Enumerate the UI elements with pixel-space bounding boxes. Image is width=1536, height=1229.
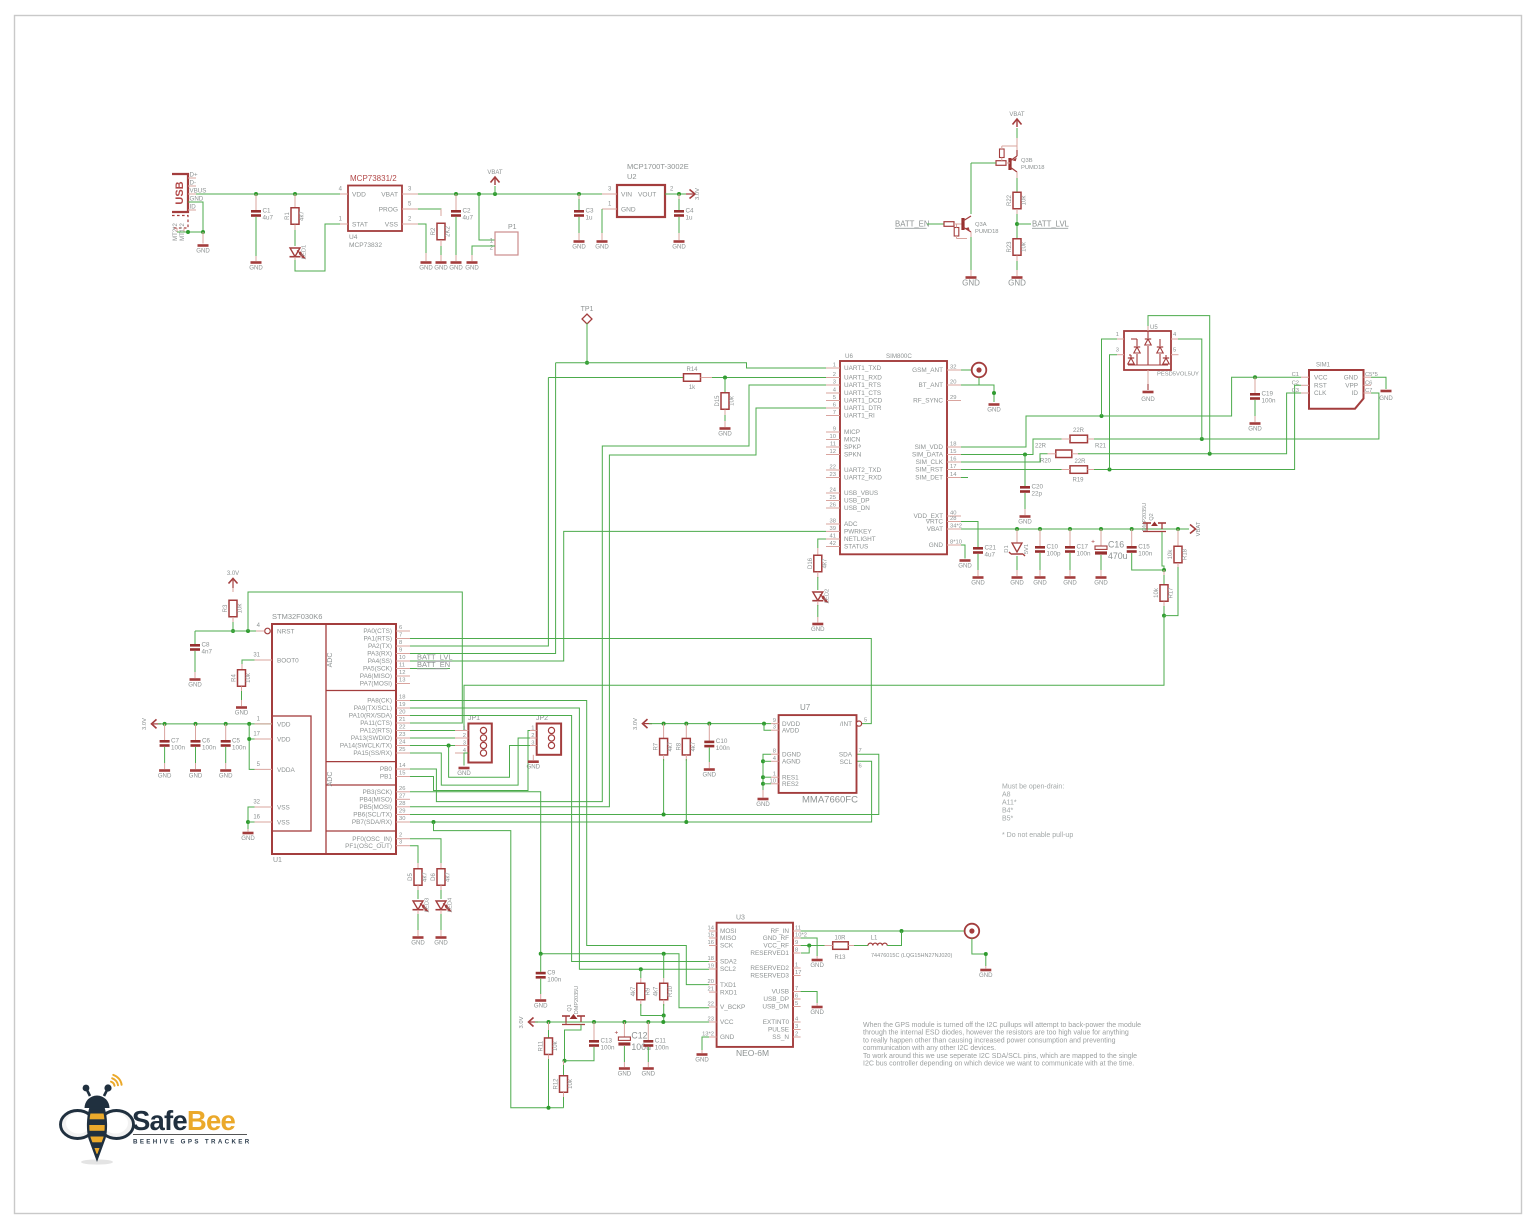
wire SIM_RST net	[961, 469, 1062, 471]
svg-text:ID: ID	[1352, 390, 1359, 397]
svg-text:GND: GND	[703, 771, 717, 778]
U5 internal diodes	[1147, 331, 1149, 338]
svg-text:A11*: A11*	[1002, 800, 1017, 807]
U1 right side port pins	[396, 630, 410, 632]
svg-text:R10: R10	[668, 985, 674, 997]
svg-text:PB3(SCK): PB3(SCK)	[363, 789, 392, 796]
svg-text:GND: GND	[434, 939, 448, 946]
svg-text:5: 5	[795, 1001, 798, 1007]
svg-text:11: 11	[795, 926, 801, 932]
svg-text:Must be open-drain:: Must be open-drain:	[1002, 784, 1064, 791]
wire RF_IN to antenna	[801, 930, 965, 932]
svg-text:38: 38	[830, 519, 836, 525]
U5 pin2 to GND	[1147, 370, 1149, 384]
svg-text:GND: GND	[1008, 279, 1026, 288]
wire U3 GND pin	[702, 1037, 709, 1050]
svg-text:C19: C19	[1262, 391, 1274, 398]
svg-text:R12: R12	[554, 1078, 560, 1090]
svg-text:MCP1700T-3002E: MCP1700T-3002E	[627, 162, 689, 171]
ground GND (U2)	[597, 240, 608, 243]
svg-text:2: 2	[463, 733, 466, 739]
wire VSS to GND	[418, 224, 426, 253]
capacitor C20	[1024, 455, 1026, 487]
svg-text:through the internal ESD diode: through the internal ESD diodes, however…	[863, 1030, 1129, 1037]
U5 pin5 stub	[1171, 354, 1179, 356]
svg-text:C11: C11	[655, 1038, 667, 1045]
svg-text:28: 28	[950, 516, 956, 522]
wire LED1 to STAT	[295, 224, 340, 271]
svg-text:U1: U1	[273, 857, 282, 864]
ground GND (C1)	[251, 261, 262, 264]
wire Q2 gate	[1162, 532, 1164, 570]
svg-text:VDD: VDD	[277, 722, 291, 729]
svg-text:25: 25	[830, 495, 836, 501]
wire VUSB to GND	[801, 992, 818, 1004]
svg-text:GND: GND	[962, 279, 980, 288]
resistor R8	[684, 722, 688, 726]
svg-text:R1: R1	[285, 212, 291, 220]
svg-text:5V1: 5V1	[1024, 544, 1030, 554]
resistor R17	[1163, 570, 1165, 577]
svg-text:+: +	[615, 1030, 619, 1037]
svg-text:PA8(CK): PA8(CK)	[367, 698, 392, 705]
svg-text:C5: C5	[232, 738, 241, 745]
svg-text:22: 22	[830, 465, 836, 471]
svg-text:VUSB: VUSB	[772, 989, 789, 996]
resistor R22	[1016, 178, 1018, 193]
svg-text:VCC: VCC	[1314, 374, 1328, 381]
svg-text:C2: C2	[1292, 380, 1299, 386]
base resistor (Q3B)	[996, 161, 1006, 166]
ground GND (USB)	[198, 244, 209, 247]
svg-text:PF0(OSC_IN): PF0(OSC_IN)	[352, 836, 392, 843]
capacitor C21	[973, 547, 983, 550]
svg-text:3.0V: 3.0V	[519, 1016, 525, 1028]
svg-text:SCK: SCK	[720, 943, 734, 950]
svg-text:10k: 10k	[1168, 549, 1174, 560]
svg-text:USB_DM: USB_DM	[762, 1004, 789, 1011]
svg-text:10k: 10k	[1154, 587, 1160, 598]
svg-text:C12: C12	[631, 1031, 647, 1041]
svg-text:SIM800C: SIM800C	[886, 353, 912, 360]
svg-text:RESERVED2: RESERVED2	[750, 965, 789, 972]
power 3.0V output arrow	[690, 190, 696, 199]
svg-text:GND: GND	[465, 264, 479, 271]
svg-text:VSS: VSS	[385, 222, 399, 229]
ground GND (LED2)	[812, 623, 823, 626]
svg-text:SIM1: SIM1	[1316, 363, 1331, 369]
svg-text:SDA: SDA	[839, 752, 853, 759]
svg-text:BATT_EN: BATT_EN	[895, 220, 930, 229]
svg-text:JP2: JP2	[536, 715, 548, 722]
wire C9 line to V_BCKP	[541, 954, 709, 1008]
svg-text:22R: 22R	[1073, 428, 1085, 434]
svg-text:VDD: VDD	[352, 192, 366, 199]
wire VDD rail	[158, 723, 272, 725]
capacitor C17	[1068, 527, 1072, 531]
svg-text:PB4(MISO): PB4(MISO)	[359, 797, 392, 804]
svg-text:STAT: STAT	[352, 222, 368, 229]
svg-text:21: 21	[708, 987, 714, 993]
svg-text:100n: 100n	[232, 745, 247, 752]
svg-text:C7: C7	[171, 738, 180, 745]
wire VRTC to C21	[961, 522, 978, 548]
logo SafeBee	[61, 1075, 252, 1165]
svg-text:VSS: VSS	[277, 820, 290, 827]
svg-text:R11: R11	[539, 1040, 545, 1051]
svg-text:10k: 10k	[246, 672, 252, 683]
resistor D15	[724, 378, 726, 395]
svg-text:VSS: VSS	[277, 805, 290, 812]
resistor R7	[662, 722, 666, 726]
svg-text:C10: C10	[1047, 544, 1059, 551]
svg-text:R13: R13	[834, 955, 846, 961]
svg-text:R8: R8	[676, 742, 682, 750]
svg-text:GND: GND	[1379, 395, 1393, 402]
svg-text:R19: R19	[1072, 478, 1084, 484]
svg-text:GND: GND	[720, 1034, 735, 1041]
svg-text:4u7: 4u7	[263, 215, 274, 222]
svg-text:SIM_DET: SIM_DET	[915, 475, 943, 482]
ground GND (C11)	[643, 1067, 654, 1070]
svg-text:39: 39	[830, 526, 836, 532]
svg-text:41: 41	[830, 534, 836, 540]
wire U7 grounds	[763, 754, 771, 790]
svg-text:10k: 10k	[553, 1040, 559, 1051]
resistor R18	[1176, 527, 1180, 531]
svg-text:VBAT: VBAT	[381, 192, 398, 199]
wire VBAT rail (charger out)	[418, 193, 608, 195]
power VBAT arrow (battery divider)	[1013, 119, 1022, 125]
svg-text:17: 17	[253, 732, 260, 738]
svg-text:MICN: MICN	[844, 437, 861, 444]
svg-text:9: 9	[795, 940, 798, 946]
wire R9 R10 bottoms to VCC	[641, 1004, 664, 1016]
svg-text:UART1_DTR: UART1_DTR	[844, 405, 882, 412]
svg-text:GND: GND	[958, 562, 972, 569]
svg-text:10k: 10k	[730, 395, 736, 406]
svg-text:100n: 100n	[601, 1045, 616, 1052]
svg-text:22R: 22R	[1074, 459, 1086, 465]
svg-text:MCP73831/2: MCP73831/2	[350, 174, 397, 183]
svg-text:7: 7	[399, 633, 402, 639]
svg-text:SPKN: SPKN	[844, 452, 862, 459]
svg-text:8: 8	[795, 948, 798, 954]
svg-text:BATT_LVL: BATT_LVL	[1032, 220, 1070, 229]
svg-text:D15: D15	[715, 395, 721, 407]
wire U2 GND pin to ground	[601, 209, 603, 233]
svg-text:GND: GND	[1248, 425, 1262, 432]
svg-text:28: 28	[399, 801, 405, 807]
svg-text:1: 1	[795, 963, 798, 969]
svg-text:PA2(TX): PA2(TX)	[368, 643, 392, 650]
antenna GSM_ANT	[961, 369, 971, 371]
svg-text:SIM_VDD: SIM_VDD	[915, 444, 944, 451]
wire SIM GND pin	[1371, 377, 1386, 389]
svg-text:GND: GND	[1033, 579, 1047, 586]
LED LED4	[440, 890, 442, 899]
svg-text:RESERVED3: RESERVED3	[750, 973, 789, 980]
ground GND (U7)	[758, 798, 769, 801]
svg-text:R23: R23	[1007, 241, 1013, 253]
wire C13 bottom to gate node	[565, 1047, 595, 1061]
svg-text:R22: R22	[1007, 194, 1013, 206]
svg-text:12: 12	[830, 449, 836, 455]
svg-text:C3: C3	[1292, 388, 1299, 394]
svg-text:TP1: TP1	[581, 306, 594, 313]
svg-text:Q1: Q1	[567, 1004, 573, 1011]
transistor Q3A PUMD18	[961, 218, 964, 230]
svg-text:3: 3	[833, 380, 836, 386]
svg-text:21: 21	[399, 717, 405, 723]
svg-text:SafeBee: SafeBee	[132, 1105, 235, 1136]
svg-text:5: 5	[1173, 348, 1176, 354]
ground GND (C8)	[190, 678, 201, 681]
svg-text:5: 5	[833, 395, 836, 401]
svg-text:4n7: 4n7	[202, 649, 213, 656]
svg-text:PA15(SS/RX): PA15(SS/RX)	[353, 750, 392, 757]
svg-text:3.0V: 3.0V	[227, 571, 239, 577]
resistor R4	[242, 660, 255, 664]
svg-text:ADC: ADC	[327, 772, 334, 787]
svg-text:VDD: VDD	[277, 737, 291, 744]
resistor R11	[547, 1020, 551, 1024]
svg-text:10k: 10k	[1022, 241, 1028, 252]
svg-text:GND: GND	[811, 626, 825, 633]
svg-text:7: 7	[859, 748, 862, 754]
svg-text:C17: C17	[1077, 544, 1089, 551]
svg-text:LED3: LED3	[425, 898, 431, 913]
svg-text:42: 42	[830, 541, 836, 547]
LED LED3	[417, 890, 419, 899]
ground GND (C12)	[619, 1067, 630, 1070]
svg-text:PA0(CTS): PA0(CTS)	[363, 628, 392, 635]
capacitor C10	[707, 722, 711, 726]
svg-text:9: 9	[833, 427, 836, 433]
svg-text:STATUS: STATUS	[844, 544, 868, 551]
ground GND (Q3A)	[966, 276, 977, 279]
svg-text:PA6(MISO): PA6(MISO)	[360, 673, 392, 680]
wire SIM_DET stub	[961, 477, 968, 479]
svg-text:1u: 1u	[586, 215, 594, 222]
svg-text:U2: U2	[627, 172, 637, 181]
svg-text:Q3B: Q3B	[1021, 158, 1033, 164]
ground GND (U1 VSS)	[243, 832, 254, 835]
svg-text:2: 2	[399, 833, 402, 839]
svg-text:3.0V: 3.0V	[142, 718, 148, 730]
svg-text:VBAT: VBAT	[1196, 521, 1202, 536]
svg-text:BATT_EN: BATT_EN	[417, 660, 450, 669]
svg-text:GND: GND	[190, 196, 204, 203]
svg-text:10: 10	[830, 434, 836, 440]
svg-text:U3: U3	[736, 915, 745, 922]
U5 top pin wire	[1147, 325, 1149, 331]
svg-text:3.0V: 3.0V	[695, 188, 701, 200]
svg-text:5: 5	[864, 718, 867, 724]
capacitor C4	[678, 194, 680, 201]
svg-text:R2: R2	[431, 227, 437, 235]
ground GND (JP1)	[459, 767, 470, 770]
svg-text:PA7(MOSI): PA7(MOSI)	[360, 681, 392, 688]
svg-text:UART2_RXD: UART2_RXD	[844, 475, 882, 482]
wire R7 to PB6	[663, 759, 665, 815]
ground GND (VUSB)	[812, 1006, 823, 1009]
wire R18 bottom to R17 node	[1164, 567, 1178, 616]
wire JP1 pin4 to GND	[464, 753, 468, 766]
wire NRST net	[231, 629, 235, 633]
svg-text:8: 8	[773, 749, 776, 755]
connector USB	[172, 174, 188, 212]
svg-text:25: 25	[399, 747, 405, 753]
svg-text:32: 32	[253, 800, 260, 806]
svg-text:SIM_DATA: SIM_DATA	[912, 452, 944, 459]
svg-text:4k7: 4k7	[423, 872, 429, 882]
svg-text:GND: GND	[457, 770, 471, 777]
svg-text:TXD1: TXD1	[720, 982, 737, 989]
svg-text:to really happen other than ca: to really happen other than causing incr…	[863, 1037, 1116, 1044]
svg-text:15: 15	[399, 771, 405, 777]
svg-text:D5: D5	[408, 873, 414, 881]
svg-text:MISO: MISO	[720, 935, 736, 942]
ground GND (D15)	[720, 427, 731, 430]
svg-text:C2: C2	[463, 208, 472, 215]
svg-text:100n: 100n	[1077, 551, 1092, 558]
svg-text:PF1(OSC_OUT): PF1(OSC_OUT)	[345, 843, 392, 850]
svg-text:D1: D1	[1004, 545, 1010, 552]
ground GND (C3)	[574, 240, 585, 243]
capacitor C13	[592, 1020, 596, 1024]
svg-text:6: 6	[859, 764, 862, 770]
svg-text:RES2: RES2	[782, 781, 799, 788]
svg-text:PA1(RTS): PA1(RTS)	[363, 636, 392, 643]
wire RST to SIM RST	[1094, 385, 1301, 469]
U5 pin3 wire	[1117, 354, 1124, 356]
label BATT_EN (PA5)	[410, 668, 450, 670]
svg-text:100n: 100n	[1262, 398, 1277, 405]
svg-text:GND: GND	[1094, 579, 1108, 586]
svg-text:SIM_RST: SIM_RST	[915, 467, 943, 474]
svg-text:DGND: DGND	[782, 751, 801, 758]
svg-text:P1: P1	[508, 224, 517, 231]
wire SDA2 net	[410, 716, 709, 962]
svg-text:communication with any other I: communication with any other I2C devices…	[863, 1045, 996, 1052]
wire L1 to RF_IN	[887, 931, 901, 946]
capacitor C2	[454, 192, 458, 196]
svg-text:GND: GND	[196, 247, 210, 254]
svg-text:MMA7660FC: MMA7660FC	[802, 795, 858, 806]
svg-text:6: 6	[795, 994, 798, 1000]
svg-text:C13: C13	[601, 1038, 613, 1045]
svg-text:UART1_CTS: UART1_CTS	[844, 390, 881, 397]
svg-text:VBAT: VBAT	[927, 526, 943, 533]
svg-text:D-: D-	[190, 180, 197, 187]
svg-text:PA14(SWCLK/TX): PA14(SWCLK/TX)	[340, 743, 392, 750]
capacitor C15	[1130, 527, 1134, 531]
svg-text:LED1: LED1	[302, 245, 308, 260]
svg-text:PA9(TX/SCL): PA9(TX/SCL)	[354, 705, 392, 712]
wire VBUS rail	[196, 193, 348, 195]
svg-text:R21: R21	[1095, 444, 1107, 450]
wire PWRKEY net	[410, 531, 826, 661]
svg-text:RESERVED1: RESERVED1	[750, 950, 789, 957]
svg-text:RF_SYNC: RF_SYNC	[913, 398, 943, 405]
ground GND (U6)	[960, 559, 971, 562]
svg-text:C21: C21	[985, 545, 997, 552]
ground GND (C2)	[451, 261, 462, 264]
svg-text:7: 7	[795, 986, 798, 992]
ground GND (C21)	[973, 576, 984, 579]
svg-text:6: 6	[399, 625, 402, 631]
capacitor C12 100u	[622, 1020, 626, 1024]
svg-text:C16: C16	[1108, 540, 1124, 550]
svg-text:GND: GND	[241, 835, 255, 842]
svg-text:C15: C15	[1138, 544, 1150, 551]
svg-text:C9: C9	[547, 969, 556, 976]
svg-text:U6: U6	[845, 353, 853, 360]
svg-text:+: +	[1091, 539, 1095, 546]
wire PB7 to U7 SCL net	[410, 761, 872, 822]
svg-text:ADC: ADC	[327, 653, 334, 668]
svg-text:NETLIGHT: NETLIGHT	[844, 536, 876, 543]
svg-text:C1: C1	[1292, 372, 1299, 378]
svg-text:PROG: PROG	[379, 207, 398, 214]
svg-text:12: 12	[399, 670, 405, 676]
wire Q3A collector to Q3B base	[971, 162, 996, 164]
svg-text:PA4(SS): PA4(SS)	[368, 658, 392, 665]
svg-text:Q2: Q2	[1149, 513, 1155, 520]
svg-text:100n: 100n	[716, 745, 731, 752]
svg-text:U4: U4	[349, 234, 358, 241]
svg-text:26: 26	[830, 503, 836, 509]
svg-text:GND: GND	[621, 207, 636, 214]
resistor R9	[639, 967, 643, 971]
ground GND (SIM1)	[1381, 390, 1392, 393]
wire AVDD jog	[762, 722, 766, 726]
ground GND (C10)	[1035, 576, 1046, 579]
svg-text:18: 18	[399, 695, 405, 701]
LED LED2	[817, 577, 819, 590]
svg-text:4k7: 4k7	[654, 986, 660, 996]
svg-text:USB_VBUS: USB_VBUS	[844, 490, 878, 497]
wire 3.0V rail (U7)	[649, 723, 771, 725]
svg-text:31: 31	[253, 653, 260, 659]
svg-text:B4*: B4*	[1002, 808, 1014, 815]
ground GND (antenna)	[989, 403, 1000, 406]
wire SIM_DATA net	[961, 439, 1062, 455]
svg-text:GND: GND	[971, 579, 985, 586]
diode D1 zener 5V1	[1015, 527, 1019, 531]
wire VBAT rail (SIM800C)	[961, 528, 1189, 530]
ground GND (GPS ant)	[980, 969, 991, 972]
svg-text:VCC: VCC	[720, 1019, 734, 1026]
ground GND (C4)	[674, 240, 685, 243]
ground GND (U3)	[697, 1053, 708, 1056]
wire VCC rail (GPS)	[535, 1021, 709, 1023]
svg-text:GND: GND	[1344, 374, 1359, 381]
wire DTR net	[410, 408, 826, 807]
svg-text:1: 1	[1116, 332, 1119, 338]
svg-text:ID: ID	[190, 204, 197, 211]
svg-text:PA10(RX/SDA): PA10(RX/SDA)	[349, 713, 392, 720]
svg-text:R20: R20	[1040, 459, 1052, 465]
svg-text:PA12(RTS): PA12(RTS)	[360, 728, 392, 735]
svg-text:9: 9	[399, 648, 402, 654]
mounting pads MT2*2 MT1*2	[172, 216, 188, 229]
svg-text:VBAT: VBAT	[1009, 112, 1025, 118]
svg-text:/INT: /INT	[840, 721, 852, 728]
svg-text:GND: GND	[534, 1002, 548, 1009]
antenna GPS	[965, 924, 980, 939]
